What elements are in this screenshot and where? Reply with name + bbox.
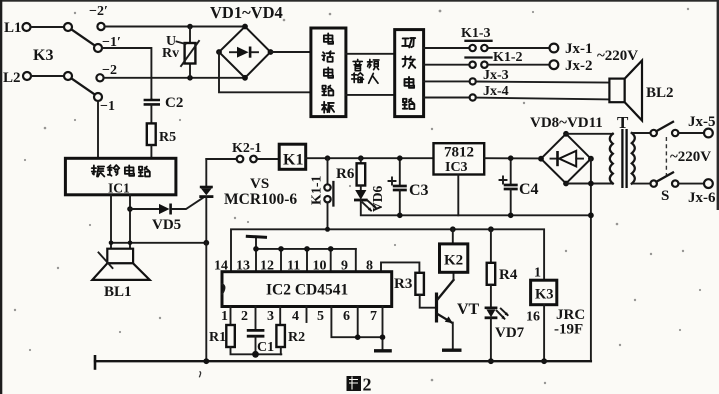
ground VT xyxy=(442,349,462,352)
wire phone to amp lower xyxy=(346,94,395,96)
wire Jx-3 to BL2 xyxy=(476,82,610,83)
pin 1 stub xyxy=(230,307,232,326)
svg-text:K2-1: K2-1 xyxy=(232,141,262,156)
wire VD6 to 0V rail xyxy=(361,200,591,215)
node xyxy=(588,212,594,218)
svg-text:K1-3: K1-3 xyxy=(461,26,491,41)
wire bridge left down to phone box lower xyxy=(219,52,311,92)
svg-text:5: 5 xyxy=(317,309,324,324)
svg-text:R6: R6 xyxy=(336,166,355,182)
scan border right xyxy=(717,0,719,210)
svg-text:Jx-1: Jx-1 xyxy=(565,41,593,57)
svg-text:Jx-6: Jx-6 xyxy=(688,190,716,206)
svg-text:MCR100-6: MCR100-6 xyxy=(224,191,297,208)
svg-text:Rv: Rv xyxy=(162,46,179,61)
pin 6 stub xyxy=(357,307,359,338)
wire xyxy=(189,64,191,78)
apostrophe speck xyxy=(199,372,200,378)
switch S top arm xyxy=(656,122,673,131)
svg-text:~220V: ~220V xyxy=(670,149,711,165)
connector Jx-4 xyxy=(470,84,509,101)
terminal L2 xyxy=(3,70,31,86)
svg-text:−1: −1 xyxy=(100,99,115,114)
pin 10 stub xyxy=(330,249,332,272)
pin 2 stub xyxy=(255,307,257,331)
figure caption xyxy=(347,375,372,394)
wire L2 to K3 pole xyxy=(31,75,64,77)
thyristor VS MCR100-6 xyxy=(199,159,297,243)
wire top rail -2' to bridge top xyxy=(105,26,246,28)
wire amp out 4 xyxy=(424,97,470,99)
svg-text:1: 1 xyxy=(534,266,541,281)
pin numbers bottom xyxy=(221,309,377,324)
+12V switched rail xyxy=(231,229,544,280)
switch K3 arm a xyxy=(72,30,95,46)
svg-text:1: 1 xyxy=(221,309,228,324)
svg-text:2: 2 xyxy=(241,309,248,324)
wire secondary top to switch xyxy=(632,132,651,134)
wire VS top to K2-1 xyxy=(206,158,236,160)
svg-text:−2′: −2′ xyxy=(89,4,108,19)
svg-text:VD7: VD7 xyxy=(495,325,525,341)
node K3 ground xyxy=(541,358,547,364)
svg-text:K1-1: K1-1 xyxy=(310,175,325,205)
capacitor C2 xyxy=(144,95,184,123)
resistor R4 xyxy=(487,229,518,284)
svg-text:IC3: IC3 xyxy=(445,160,468,175)
wire to Jx-1 xyxy=(488,47,550,49)
wire VD5 to VS gate xyxy=(172,197,205,209)
label audio input xyxy=(352,59,379,83)
svg-text:L1: L1 xyxy=(4,20,22,36)
capacitor C4 xyxy=(500,158,539,215)
telephone circuit board box xyxy=(311,28,346,117)
wire K2-1 to K1 xyxy=(257,158,279,160)
svg-text:−2: −2 xyxy=(102,63,117,78)
svg-text:BL1: BL1 xyxy=(104,284,132,300)
wire pins 13-12-11-10-9 bus xyxy=(256,248,356,250)
ground pin7 xyxy=(374,349,392,352)
terminal Jx-5 xyxy=(688,114,716,137)
wire to Jx-2 xyxy=(488,64,550,66)
svg-text:7: 7 xyxy=(370,309,377,324)
svg-text:VD6: VD6 xyxy=(370,186,385,212)
resistor R6 xyxy=(336,158,365,185)
wire bridge right to phone box xyxy=(271,51,311,53)
switch S top contact xyxy=(672,130,678,136)
node xyxy=(508,213,514,219)
svg-text:Jx-5: Jx-5 xyxy=(688,114,716,130)
svg-text:K3: K3 xyxy=(33,47,53,64)
switch S bottom pole xyxy=(651,180,657,186)
wire L1 to K3 pole xyxy=(31,26,65,28)
svg-text:S: S xyxy=(661,188,669,204)
svg-text:16: 16 xyxy=(526,310,540,325)
node K1-1 bottom xyxy=(325,227,330,232)
wire -1' to C2 branch xyxy=(102,48,151,99)
switch K3 arm b xyxy=(72,79,95,95)
svg-text:6: 6 xyxy=(343,309,350,324)
wire VT collector to K2 xyxy=(453,272,455,280)
svg-text:4: 4 xyxy=(292,309,299,324)
svg-text:R5: R5 xyxy=(159,130,176,145)
node xyxy=(328,246,334,252)
connector Jx-3 xyxy=(470,68,509,85)
wire bridge right vertex down to ground rail xyxy=(590,159,592,362)
wire amp out 1 xyxy=(424,47,470,49)
power amplifier box xyxy=(395,30,424,117)
resistor R5 xyxy=(147,123,176,158)
svg-text:C4: C4 xyxy=(519,181,539,198)
svg-text:C2: C2 xyxy=(165,95,183,111)
speaker BL1 xyxy=(92,249,149,300)
node xyxy=(203,240,209,246)
speaker BL2 xyxy=(609,61,673,121)
node xyxy=(355,334,361,340)
svg-text:-19F: -19F xyxy=(554,322,583,338)
contact -1 xyxy=(94,93,115,114)
node varistor bottom xyxy=(187,75,193,81)
switch K3 pole a xyxy=(64,23,72,31)
varistor U Rv xyxy=(162,34,199,66)
wire amp out 3 xyxy=(424,80,470,82)
node xyxy=(508,155,514,161)
pin 4 stub xyxy=(306,307,308,323)
pin 7 stub to ground xyxy=(382,307,384,351)
wire K1 to 7812 xyxy=(306,157,434,159)
scan border left xyxy=(0,0,2,394)
bridge rectifier VD1-VD4 xyxy=(216,24,273,81)
svg-text:VD1~VD4: VD1~VD4 xyxy=(210,3,283,22)
pin 5 stub xyxy=(331,307,382,338)
svg-text:R2: R2 xyxy=(288,330,305,345)
terminal Jx-6 xyxy=(688,179,716,206)
wire IC1 bottom left to BL1 xyxy=(110,195,112,249)
transformer T xyxy=(610,113,635,188)
svg-text:L2: L2 xyxy=(3,70,21,86)
resistor R2 xyxy=(276,325,305,354)
capacitor C3 xyxy=(389,158,429,215)
node xyxy=(109,241,114,246)
svg-text:R3: R3 xyxy=(394,276,412,292)
terminal Jx-1 xyxy=(550,41,593,57)
svg-text:C1: C1 xyxy=(257,340,274,355)
ground rail bottom xyxy=(95,360,591,362)
wire phone to amp upper xyxy=(346,53,395,55)
resistor R1 xyxy=(209,325,235,347)
bridge rectifier VD8-VD11 xyxy=(538,131,594,187)
svg-text:IC1: IC1 xyxy=(108,181,130,196)
svg-text:Jx-4: Jx-4 xyxy=(483,84,509,99)
wire to Jx-5 xyxy=(678,132,703,134)
contact K1-1 xyxy=(310,158,334,229)
svg-text:R1: R1 xyxy=(209,330,226,345)
svg-text:K1-2: K1-2 xyxy=(493,50,523,65)
switch S bottom arm xyxy=(656,172,673,181)
wire 7812 to bridge xyxy=(484,157,541,159)
wire -1 down to IC1 xyxy=(97,101,99,158)
svg-text:VT: VT xyxy=(457,301,480,318)
node xyxy=(304,246,310,252)
wire amp out 2 xyxy=(424,64,470,66)
ring circuit IC1 box xyxy=(65,158,175,195)
node xyxy=(278,246,284,252)
wire bridge top to transformer primary xyxy=(566,133,613,135)
pin 11 stub xyxy=(306,249,308,272)
node thyristor rail xyxy=(203,358,209,364)
capacitor C1 xyxy=(247,330,274,357)
terminal Jx-2 xyxy=(550,58,593,74)
node xyxy=(397,155,403,161)
node xyxy=(128,241,133,246)
svg-text:IC2 CD4541: IC2 CD4541 xyxy=(266,282,348,299)
svg-text:VD5: VD5 xyxy=(152,217,181,233)
node K2 coil top xyxy=(450,226,456,232)
pin 12 stub xyxy=(280,249,282,272)
svg-text:2: 2 xyxy=(363,375,372,394)
node VD5 anode xyxy=(127,206,133,212)
scan border top xyxy=(0,0,719,2)
diode VD6 xyxy=(354,186,385,213)
switch S top pole xyxy=(651,130,657,136)
svg-text:~220V: ~220V xyxy=(597,48,638,64)
relay coil K1 xyxy=(279,144,306,169)
contact K1-3 xyxy=(461,26,492,51)
node VD7 ground xyxy=(488,358,494,364)
contact -2' xyxy=(89,4,108,30)
svg-text:C3: C3 xyxy=(409,182,429,199)
svg-text:K2: K2 xyxy=(444,253,463,269)
wire -2 rail to bridge bottom xyxy=(104,77,246,79)
relay coil K3 xyxy=(526,266,585,362)
pin 13 stub xyxy=(255,249,257,272)
pin numbers top xyxy=(214,259,373,274)
contact -1' xyxy=(94,35,121,52)
wire Jx-4 to BL2 xyxy=(476,98,610,100)
IC2 CD4541 xyxy=(222,272,392,307)
node K1-1 top xyxy=(325,155,331,161)
svg-text:3: 3 xyxy=(267,309,274,324)
svg-text:Jx-2: Jx-2 xyxy=(565,58,593,74)
wire secondary bottom to switch xyxy=(632,183,651,185)
node varistor top xyxy=(187,24,193,30)
svg-text:VS: VS xyxy=(250,176,269,192)
pin 8 wire to R3 xyxy=(381,262,419,272)
wire R3 to VT base xyxy=(420,295,436,308)
node R6 top xyxy=(358,155,364,161)
svg-text:R4: R4 xyxy=(499,267,518,283)
diode VD5 xyxy=(130,204,181,234)
svg-text:VD8~VD11: VD8~VD11 xyxy=(530,115,603,131)
node xyxy=(397,213,403,219)
pin 3 stub xyxy=(279,307,281,326)
resistor R3 xyxy=(394,273,424,295)
wire bridge bottom to transformer primary xyxy=(566,183,613,185)
rail left end tick xyxy=(94,355,97,370)
switch K3 pole b xyxy=(64,72,72,80)
switch S bottom contact xyxy=(672,180,678,186)
wire BL1 bus xyxy=(111,242,206,244)
wire R1 bottom xyxy=(231,347,282,354)
node xyxy=(380,334,386,340)
svg-text:BL2: BL2 xyxy=(646,85,674,101)
switch S linkage xyxy=(665,137,667,179)
pin 9 stub xyxy=(355,249,357,272)
wire VS to ground rail xyxy=(205,243,207,361)
wire IC1 bottom right to BL1 xyxy=(129,195,131,249)
svg-text:7812: 7812 xyxy=(444,145,474,161)
transistor VT xyxy=(437,280,480,323)
relay coil K2 xyxy=(440,229,468,272)
contact K2-1 xyxy=(232,141,262,162)
node R4 top xyxy=(488,226,494,232)
regulator 7812 IC3 xyxy=(434,143,485,215)
pin13 plug symbol xyxy=(246,236,267,249)
node xyxy=(253,246,259,252)
node xyxy=(588,181,594,187)
wire to Jx-6 xyxy=(678,183,703,185)
svg-text:K1: K1 xyxy=(283,152,303,169)
svg-text:K3: K3 xyxy=(535,287,554,303)
wire varistor leads xyxy=(189,27,191,44)
terminal L1 xyxy=(4,20,31,36)
wire VT emitter to ground xyxy=(452,323,454,349)
contact -2 xyxy=(96,63,117,81)
contact K1-2 xyxy=(466,50,523,68)
led VD7 xyxy=(485,285,525,361)
